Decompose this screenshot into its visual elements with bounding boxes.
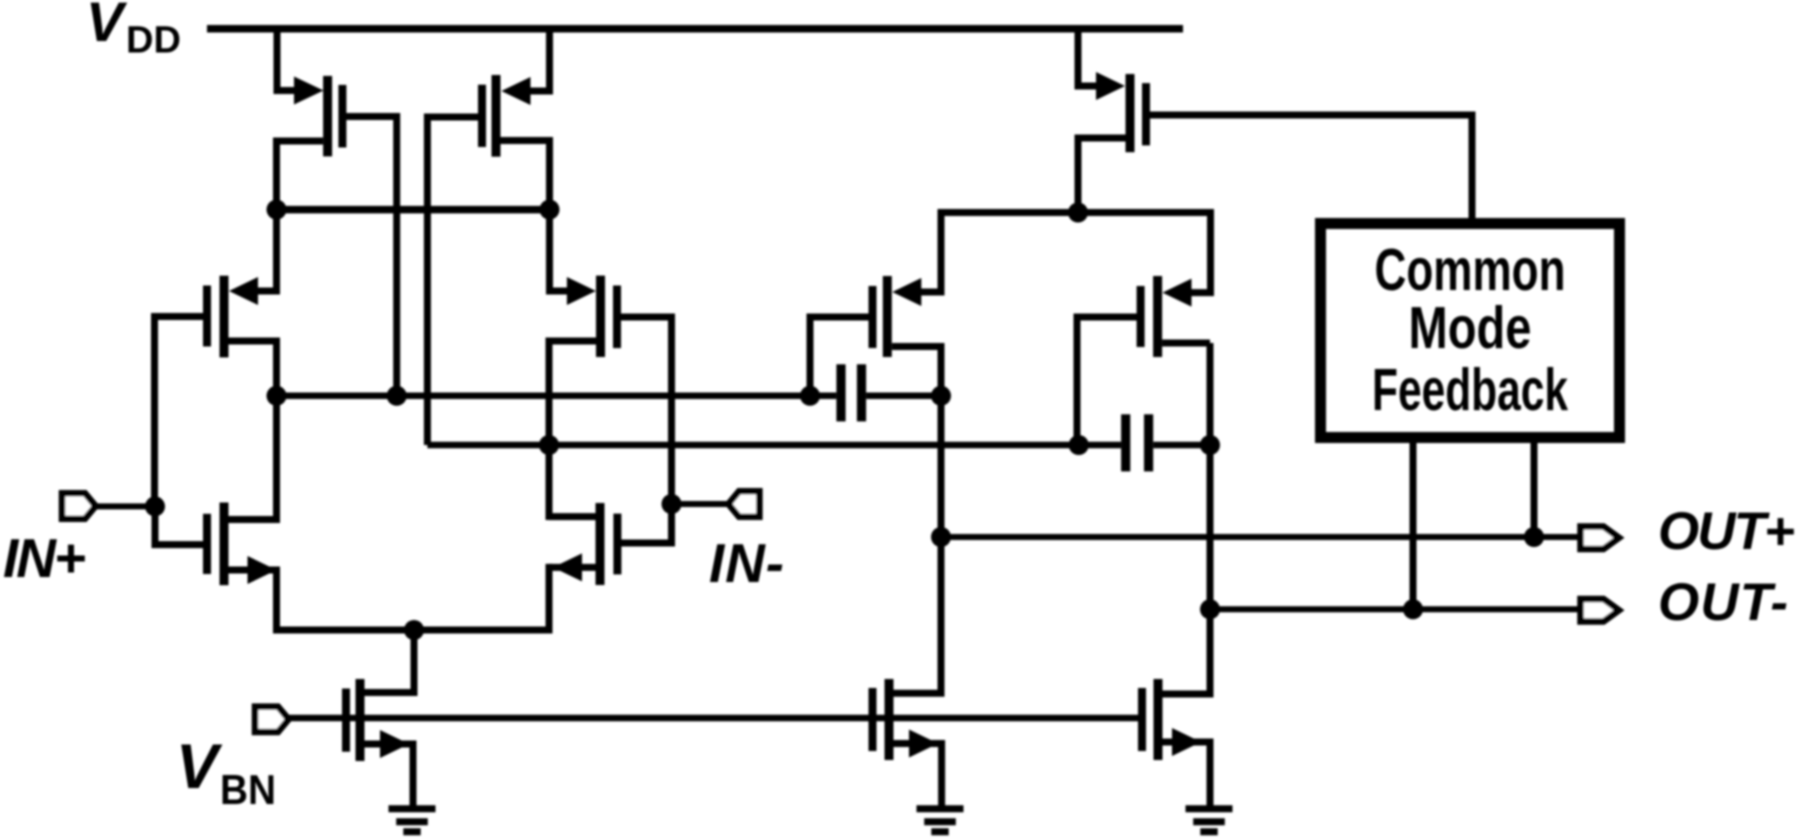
pmos M4 gate stub <box>620 314 672 321</box>
pmos M3 source arrow <box>229 277 258 305</box>
pmos M7 drain stub <box>1078 135 1126 142</box>
nmos M12 gate bar <box>1138 688 1146 751</box>
port OUT- <box>1581 599 1620 622</box>
wire M5 drain up to node A <box>273 392 280 523</box>
wire IN+ node down to M5 gate <box>155 503 203 545</box>
pmos M2 channel bar <box>492 75 501 157</box>
wire tail rail <box>273 627 553 634</box>
junction dot node A at M8 gate <box>800 386 820 406</box>
wire VBN rail <box>289 715 1146 722</box>
svg-text:Feedback: Feedback <box>1372 357 1568 423</box>
pmos M2 gate bar <box>478 85 486 147</box>
pmos M8 source arrow <box>892 278 921 306</box>
nmos M6 gate bar <box>613 514 621 575</box>
junction dot IN+ node <box>145 496 165 516</box>
pmos M9 channel bar <box>1153 276 1162 357</box>
wire M6 source down to tail <box>546 564 553 634</box>
wire M3 gate down to IN+ node <box>151 313 158 506</box>
capacitor C2 left plate <box>1121 414 1130 471</box>
wire first-stage load drain rail <box>273 206 553 214</box>
junction dot left load node <box>267 200 287 220</box>
pmos M1 drain stub <box>277 138 324 145</box>
wire M3 source down <box>254 206 277 291</box>
nmos M11 gate bar <box>869 688 877 751</box>
wire C2 right plate to M9 drain <box>1153 442 1210 449</box>
wire M8 source down <box>919 209 941 292</box>
nmos M5 drain stub <box>228 516 277 523</box>
nmos M5 source stub <box>228 567 277 574</box>
nmos M12 source arrow <box>1172 728 1201 756</box>
nmos M6 drain stub <box>549 513 596 520</box>
nmos M10 gate bar <box>342 689 350 752</box>
port OUT+ <box>1581 527 1620 550</box>
pmos M4 gate bar <box>613 286 621 349</box>
pmos M9 source arrow <box>1163 279 1192 307</box>
nmos M6 source stub <box>549 564 596 571</box>
wire CMFB left pin to OUT- <box>1410 438 1417 609</box>
junction dot right load node <box>540 200 560 220</box>
wire CMFB right pin to OUT+ <box>1531 438 1538 537</box>
pmos M1 gate stub <box>346 113 397 120</box>
wire M10 source down to ground <box>410 741 417 807</box>
svg-text:OUT-: OUT- <box>1658 573 1788 632</box>
ground symbol G3 <box>1186 809 1233 832</box>
wire M9 drain down through OUT- to M12 drain <box>1163 343 1211 694</box>
capacitor C1 right plate <box>857 364 866 421</box>
nmos M10 channel bar <box>356 679 365 761</box>
wire second stage source rail <box>941 209 1211 216</box>
nmos M10 source stub <box>365 741 414 748</box>
pmos M2 source arrow <box>501 77 530 105</box>
pmos M8 gate bar <box>869 286 877 348</box>
pmos M4 source arrow <box>567 277 596 305</box>
nmos M12 channel bar <box>1154 679 1163 760</box>
wire M7 source from VDD <box>1078 25 1100 86</box>
nmos M6 source arrow <box>553 553 582 581</box>
junction dot tail node <box>404 620 424 640</box>
wire M7 gate to CMFB <box>1149 115 1472 221</box>
wire M7 drain down <box>1075 135 1082 213</box>
junction dot OUT+ at M8 drain <box>931 527 951 547</box>
wire M2 source from VDD <box>528 25 550 91</box>
nmos M6 channel bar <box>596 503 605 585</box>
pmos M7 gate bar <box>1142 83 1150 145</box>
pmos M8 gate stub <box>810 314 870 321</box>
pmos M3 channel bar <box>220 276 229 358</box>
capacitor C2 right plate <box>1144 414 1153 471</box>
nmos M5 source arrow <box>248 556 277 584</box>
wire M5 source down to tail <box>273 567 280 634</box>
ground symbol G2 <box>917 809 964 832</box>
nmos M5 channel bar <box>220 503 229 586</box>
port VBN <box>255 707 289 732</box>
wire M4 gate down to IN- node <box>668 314 675 505</box>
pmos M1 source arrow <box>294 77 324 105</box>
nmos M10 source arrow <box>380 730 409 758</box>
junction dot node A cap to M8 drain <box>931 386 951 406</box>
svg-text:V: V <box>86 0 128 53</box>
wire OUT+ rail <box>941 534 1583 540</box>
nmos M12 source stub <box>1163 739 1211 746</box>
ground symbol G1 <box>389 809 436 832</box>
junction dot node B at M4/M6 drains <box>539 435 559 455</box>
nmos M5 gate bar <box>203 514 211 574</box>
pmos M3 drain stub <box>228 338 277 345</box>
pmos M7 channel bar <box>1126 74 1135 152</box>
svg-text:Common: Common <box>1375 237 1566 303</box>
pmos M3 gate bar <box>203 286 211 347</box>
nmos M11 source stub <box>894 740 942 747</box>
capacitor C1 left plate <box>836 364 845 421</box>
junction dot OUT- at CMFB pin <box>1403 599 1423 619</box>
svg-text:Mode: Mode <box>1409 295 1532 361</box>
wire M8 drain down through OUT+ to M11 drain <box>894 343 942 693</box>
pmos M4 channel bar <box>596 276 605 357</box>
svg-text:IN-: IN- <box>709 532 784 594</box>
wire M6 drain up to node B <box>546 442 553 521</box>
wire M2 drain down <box>546 137 553 210</box>
wire M9 gate down to node B <box>1074 314 1081 446</box>
pmos M4 drain stub <box>549 338 597 345</box>
port IN+ <box>94 503 158 509</box>
wire M1 gate down to node A <box>393 113 400 396</box>
pmos M8 channel bar <box>883 276 892 357</box>
junction dot node A at M1 gate <box>387 386 407 406</box>
svg-text:BN: BN <box>220 766 276 813</box>
wire IN- node down to M6 gate <box>620 500 672 543</box>
pmos M8 drain stub <box>892 343 941 350</box>
wire M2 gate down to node B <box>424 114 431 446</box>
pmos M7 source arrow <box>1096 72 1125 100</box>
wire tail down to M10 drain <box>365 630 415 693</box>
wire VDD rail <box>207 25 1183 33</box>
wire M1 drain down <box>273 138 280 210</box>
junction dot OUT+ at CMFB pin <box>1524 527 1544 547</box>
svg-text:V: V <box>176 732 223 802</box>
wire node A rail <box>277 393 837 400</box>
junction dot OUT- at M9 drain <box>1200 599 1220 619</box>
svg-text:IN+: IN+ <box>3 527 86 589</box>
CMFB box <box>1321 224 1620 438</box>
wire OUT- rail <box>1210 606 1583 612</box>
wire M3 drain down to node A <box>273 338 280 396</box>
wire M8 gate down to node A <box>807 314 814 396</box>
wire M12 source down to ground <box>1207 739 1214 807</box>
wire M11 source down to ground <box>938 740 945 807</box>
wire M4 drain down to node B <box>546 338 553 446</box>
junction dot IN- node <box>662 494 682 514</box>
pmos M9 gate bar <box>1137 286 1145 347</box>
svg-text:OUT+: OUT+ <box>1658 502 1795 561</box>
junction dot M7 drain node <box>1068 203 1088 223</box>
junction dot node A at M3/M5 drains <box>267 386 287 406</box>
pmos M2 drain stub <box>500 137 550 144</box>
wire node B rail <box>427 442 1121 449</box>
wire M4 source down <box>550 206 568 291</box>
pmos M2 gate stub <box>427 114 479 121</box>
pmos M3 gate stub <box>155 313 205 320</box>
junction dot node B cap to M9 drain <box>1200 435 1220 455</box>
wire M9 source down <box>1189 209 1211 293</box>
wire M1 source from VDD <box>277 25 298 91</box>
pmos M1 gate bar <box>338 85 346 148</box>
nmos M11 channel bar <box>885 679 894 760</box>
nmos M11 source arrow <box>909 730 938 758</box>
pmos M9 gate stub <box>1077 314 1138 321</box>
wire C1 right plate to M8 drain <box>866 393 941 400</box>
pmos M1 channel bar <box>323 76 332 156</box>
svg-text:DD: DD <box>126 20 181 62</box>
junction dot node B at M9 gate <box>1069 435 1089 455</box>
port IN- <box>672 501 731 507</box>
pmos M9 drain stub <box>1162 340 1210 347</box>
